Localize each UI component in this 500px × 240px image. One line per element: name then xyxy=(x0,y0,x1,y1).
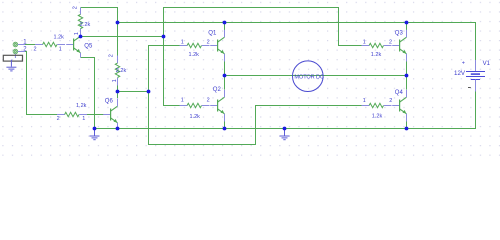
node: +12V column junction xyxy=(116,21,120,25)
transistor Q3 xyxy=(392,37,406,54)
resistor R3 2.2k (pullup at Q5 collector) xyxy=(78,8,82,37)
wire: +12V rail to battery top xyxy=(118,23,476,61)
svg-text:V1: V1 xyxy=(483,61,491,67)
wire: bottom rail to battery negative xyxy=(95,91,476,128)
wire: connector pin1 to R1 xyxy=(25,44,36,46)
ground G3 (bottom rail) xyxy=(280,129,290,140)
node: Q6 collector / R4 bottom xyxy=(116,90,120,94)
svg-text:2.2k: 2.2k xyxy=(116,68,127,74)
wire: 2.2k R3 top jog to +12V column xyxy=(81,8,118,23)
resistor 1.2k (Q2 base) xyxy=(180,103,210,107)
wire: R4 bottom to Q6 collector node xyxy=(117,86,119,99)
svg-text:1: 1 xyxy=(112,79,118,82)
svg-text:1: 1 xyxy=(181,97,184,103)
node: right bridge midpoint xyxy=(405,74,409,78)
connector pin 1 xyxy=(13,42,18,47)
wire: connector pin2 jog down left column to R2 xyxy=(25,52,58,115)
wire: Q4 emitter stub to bottom rail xyxy=(406,121,408,128)
transistor Q1 xyxy=(210,37,224,54)
svg-text:1: 1 xyxy=(59,46,62,52)
svg-text:2: 2 xyxy=(57,116,60,122)
node: Q6 emitter xyxy=(116,127,120,131)
node: Q1 collector xyxy=(223,21,227,25)
svg-text:2: 2 xyxy=(389,98,392,104)
svg-text:Q5: Q5 xyxy=(84,43,93,49)
wire: motor bridge wire xyxy=(225,75,407,77)
wire: Q1 base wire, left column, lower rail, to Q4 base resistor xyxy=(149,46,362,145)
wire: Q3 collector stub xyxy=(406,23,408,31)
svg-text:1: 1 xyxy=(181,39,184,45)
svg-text:12V: 12V xyxy=(454,70,466,77)
node: Q3 collector xyxy=(405,21,409,25)
battery V1 12V xyxy=(475,60,477,72)
node: ground G3 tap xyxy=(283,127,287,131)
svg-text:1.2k: 1.2k xyxy=(189,52,200,58)
motor MOTOR DC xyxy=(293,61,324,92)
transistor Q5 xyxy=(66,36,80,53)
svg-text:1.2k: 1.2k xyxy=(372,113,383,119)
svg-text:1: 1 xyxy=(363,98,366,104)
svg-text:2: 2 xyxy=(389,39,392,45)
resistor 1.2k (Q1 base) xyxy=(180,43,210,47)
svg-text:1.2k: 1.2k xyxy=(76,103,87,109)
wire: Q2 collector stub to mid node xyxy=(224,76,226,90)
svg-text:1.2k: 1.2k xyxy=(371,52,382,58)
svg-text:2: 2 xyxy=(207,97,210,103)
connector pin 2 xyxy=(13,49,18,54)
resistor R1 1.2k (Q5 base) xyxy=(35,42,65,46)
transistor Q6 xyxy=(103,106,117,123)
svg-text:Q3: Q3 xyxy=(395,30,404,36)
wire: Q1 collector stub xyxy=(224,23,226,31)
connector body rectangle xyxy=(14,54,16,58)
wire: Q2 emitter stub to bottom rail xyxy=(224,121,226,128)
svg-text:1: 1 xyxy=(82,116,85,122)
svg-text:Q2: Q2 xyxy=(213,87,222,93)
wire: Q4 collector stub to mid node xyxy=(406,76,408,90)
resistor 1.2k (Q3 base) xyxy=(362,43,392,47)
ground G1 under connector xyxy=(6,60,16,71)
svg-text:2: 2 xyxy=(108,54,114,57)
node: Q2 emitter xyxy=(223,127,227,131)
resistor 1.2k (Q4 base) xyxy=(362,103,392,107)
transistor Q4 xyxy=(392,97,406,114)
svg-text:+: + xyxy=(462,61,465,67)
resistor R4 2.2k (pullup at Q6 collector) xyxy=(115,56,119,86)
wire: +12V column down to R4 top xyxy=(117,23,119,56)
node: Q4 emitter xyxy=(405,127,409,131)
svg-text:Q1: Q1 xyxy=(208,30,217,36)
svg-text:1.2k: 1.2k xyxy=(54,35,65,41)
svg-text:Q6: Q6 xyxy=(105,98,114,104)
wire: Q5 collector node to T junction xyxy=(81,36,164,38)
svg-text:1.2k: 1.2k xyxy=(190,114,201,120)
svg-text:1: 1 xyxy=(363,39,366,45)
wire: Q1 emitter stub to mid node xyxy=(224,61,226,75)
wire: top rail from T column over to Q3 base resistor xyxy=(164,8,362,46)
wire: Q6 collector node to left column xyxy=(118,91,149,93)
node: T junction on Q5 collector rail xyxy=(162,35,166,39)
svg-text:2: 2 xyxy=(73,6,79,9)
node: Q5 collector / R3 bottom xyxy=(79,35,83,39)
wire: T column down to Q2 base resistor xyxy=(164,37,180,106)
svg-text:Q4: Q4 xyxy=(395,90,404,96)
transistor Q2 xyxy=(210,97,224,114)
wire: Q3 emitter stub to mid node xyxy=(406,61,408,75)
svg-text:MOTOR DC: MOTOR DC xyxy=(294,75,324,81)
node: Q6 collector branch on left column xyxy=(147,90,151,94)
svg-text:2.2k: 2.2k xyxy=(80,22,91,28)
wire: Q5 emitter jog to ground column xyxy=(81,58,95,129)
resistor R2 1.2k (Q6 base) xyxy=(57,112,87,116)
node: ground G2 tap xyxy=(93,127,97,131)
svg-text:2: 2 xyxy=(207,39,210,45)
ground G2 (emitters Q5/Q6) xyxy=(90,129,100,140)
node: left bridge midpoint xyxy=(223,74,227,78)
wire: R2 right lead to Q6 base xyxy=(87,114,104,116)
svg-text:2: 2 xyxy=(34,46,37,52)
svg-text:1: 1 xyxy=(74,32,80,35)
